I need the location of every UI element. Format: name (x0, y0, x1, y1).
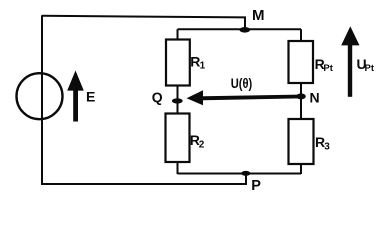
resistor R3 (289, 119, 314, 164)
wire outer left (41, 15, 43, 184)
arrow UPt (341, 26, 359, 97)
arrow E (67, 71, 84, 122)
wire outer top (42, 16, 245, 30)
resistor R1 (166, 40, 190, 86)
wire rail to R1 (177, 29, 179, 40)
wire bridge top rail (178, 28, 302, 30)
wire R1 to Q to R2 (177, 85, 179, 114)
wire R2 to bottom rail (177, 162, 179, 175)
wire R3 to bottom rail (300, 164, 302, 175)
wire rail to RPt (300, 29, 302, 41)
svg-text:Pt: Pt (323, 63, 333, 74)
wire RPt to N to R3 (300, 83, 302, 120)
resistor RPt (289, 41, 314, 83)
svg-text:1: 1 (200, 61, 206, 72)
svg-text:U(θ): U(θ) (231, 75, 253, 91)
node Q (172, 98, 183, 103)
wire bridge bottom rail (178, 173, 302, 175)
node P (241, 171, 250, 176)
node N (296, 93, 306, 99)
svg-text:3: 3 (324, 141, 330, 152)
svg-text:N: N (310, 90, 320, 106)
node M (239, 27, 250, 33)
svg-text:M: M (252, 7, 265, 24)
arrow U(theta) (187, 90, 300, 105)
wire outer bottom (41, 174, 246, 185)
svg-text:E: E (86, 89, 95, 105)
voltage source E circle (17, 73, 63, 119)
svg-text:Pt: Pt (365, 63, 375, 74)
svg-text:2: 2 (199, 140, 205, 151)
svg-text:Q: Q (152, 89, 163, 105)
svg-text:P: P (251, 178, 261, 193)
resistor R2 (166, 114, 190, 163)
